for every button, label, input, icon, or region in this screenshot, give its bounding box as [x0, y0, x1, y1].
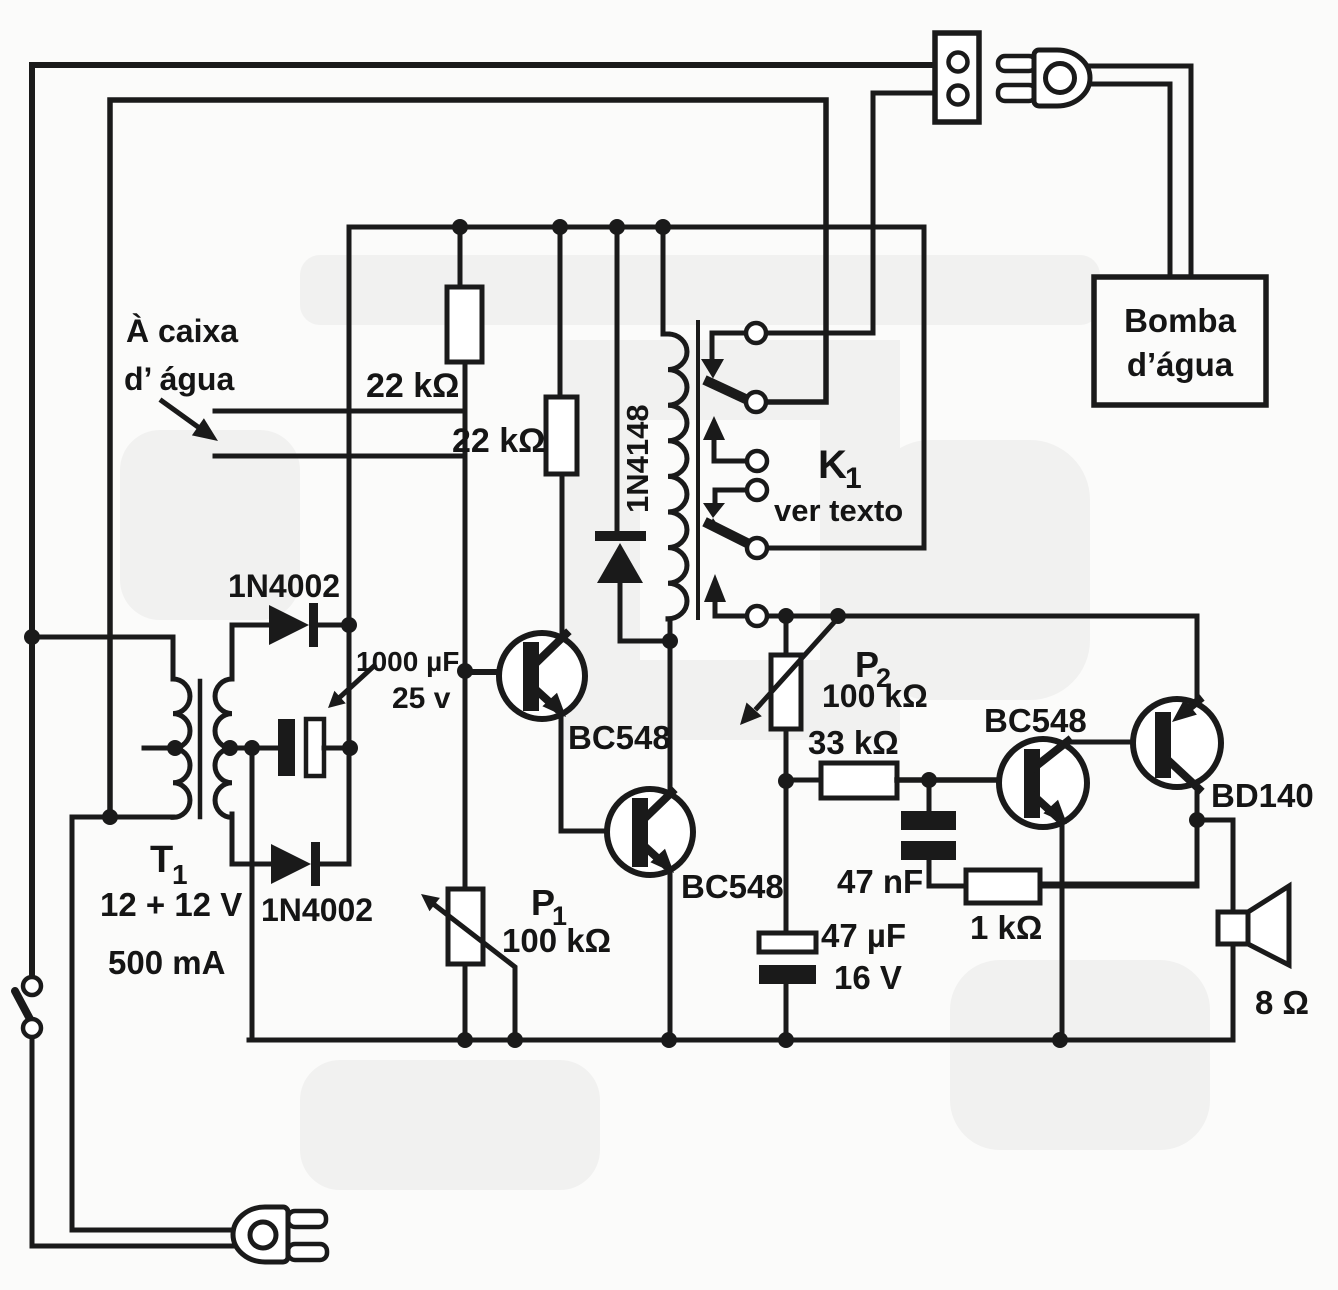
- svg-text:À caixa: À caixa: [126, 313, 238, 349]
- svg-text:16 V: 16 V: [834, 959, 902, 996]
- svg-text:1N4002: 1N4002: [228, 568, 340, 604]
- svg-text:500 mA: 500 mA: [108, 944, 225, 981]
- svg-text:BC548: BC548: [568, 719, 671, 756]
- svg-text:T: T: [150, 839, 173, 881]
- svg-text:BD140: BD140: [1211, 777, 1314, 814]
- svg-text:1N4002: 1N4002: [261, 892, 373, 928]
- svg-text:BC548: BC548: [681, 868, 784, 905]
- svg-text:ver texto: ver texto: [774, 493, 903, 528]
- svg-text:K: K: [818, 443, 847, 487]
- svg-text:47 nF: 47 nF: [837, 863, 923, 900]
- svg-text:Bomba: Bomba: [1124, 302, 1236, 339]
- svg-text:1000 µF: 1000 µF: [356, 646, 459, 677]
- svg-text:33 kΩ: 33 kΩ: [808, 724, 899, 761]
- svg-text:1 kΩ: 1 kΩ: [970, 909, 1042, 946]
- svg-text:47 µF: 47 µF: [821, 917, 906, 954]
- svg-text:100 kΩ: 100 kΩ: [502, 922, 611, 959]
- svg-text:100 kΩ: 100 kΩ: [822, 678, 928, 714]
- svg-text:22 kΩ: 22 kΩ: [452, 422, 545, 460]
- svg-text:25 v: 25 v: [392, 682, 451, 715]
- svg-text:8 Ω: 8 Ω: [1255, 984, 1309, 1021]
- svg-text:d’ água: d’ água: [124, 361, 234, 397]
- svg-text:1N4148: 1N4148: [620, 404, 655, 513]
- svg-text:BC548: BC548: [984, 702, 1087, 739]
- svg-text:d’água: d’água: [1127, 346, 1234, 383]
- svg-text:1: 1: [845, 462, 862, 495]
- svg-text:22 kΩ: 22 kΩ: [366, 367, 459, 405]
- svg-text:12 + 12 V: 12 + 12 V: [100, 886, 242, 923]
